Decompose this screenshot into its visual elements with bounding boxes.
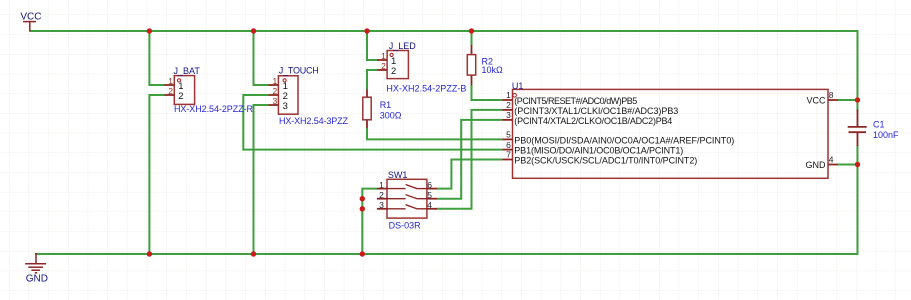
svg-text:8: 8 [829, 90, 834, 100]
switch SW1 body [387, 179, 427, 218]
wire U1 pin2 to SW1 pin4 [437, 110, 503, 209]
svg-text:(PCINT3/XTAL1/CLKI/OC1B#/ADC3): (PCINT3/XTAL1/CLKI/OC1B#/ADC3)PB3 [514, 106, 678, 116]
wire U1 pin3 to SW1 pin5 [437, 120, 503, 199]
wire J_LED pin1 feed from VCC rail [367, 31, 377, 60]
svg-text:HX-XH2.54-3PZZ: HX-XH2.54-3PZZ [279, 116, 349, 126]
connector J_BAT pins [164, 85, 174, 95]
junction dots on GND rail [147, 251, 365, 256]
wire U1 pin7 to SW1 pin6 [437, 160, 503, 189]
svg-text:GND: GND [26, 274, 48, 285]
svg-text:2: 2 [391, 66, 396, 77]
svg-text:1: 1 [381, 51, 386, 61]
wire J_TOUCH pin1 feed from VCC rail [254, 31, 269, 85]
svg-text:3: 3 [272, 96, 277, 106]
svg-text:1: 1 [506, 90, 511, 100]
svg-text:5: 5 [427, 190, 432, 200]
IC U1 pin numbers right [829, 90, 834, 165]
IC U1 body [513, 89, 829, 178]
connector J_LED pin numbers [381, 51, 386, 71]
IC U1 pin1 indicator [513, 94, 517, 98]
svg-text:5: 5 [506, 130, 511, 140]
power flag VCC [23, 22, 36, 32]
switch SW1 right pins [427, 189, 437, 209]
IC U1 pin numbers left [506, 90, 511, 160]
wire GND bottom rail [35, 253, 859, 255]
svg-text:6: 6 [427, 180, 432, 190]
wire right GND riser from C1 to bottom rail [857, 145, 859, 255]
svg-text:3: 3 [379, 200, 384, 210]
svg-text:2: 2 [379, 190, 384, 200]
wire VCC top rail [30, 30, 859, 32]
resistor R1 leads [366, 90, 368, 129]
svg-text:VCC: VCC [806, 95, 826, 105]
svg-text:1: 1 [272, 76, 277, 86]
svg-text:7: 7 [506, 150, 511, 160]
svg-text:1: 1 [379, 180, 384, 190]
wire U1 pin8 VCC to right drop [838, 99, 858, 101]
switch SW1 pin numbers left [379, 180, 384, 210]
wire J_BAT pin1 feed from VCC rail [149, 31, 164, 85]
svg-text:2: 2 [168, 86, 173, 96]
junction dots on VCC rail [147, 28, 475, 33]
svg-text:PB1(MISO/DO/AIN1/OC0B/OC1A/PCI: PB1(MISO/DO/AIN1/OC0B/OC1A/PCINT1) [514, 146, 683, 156]
connector J_TOUCH pins [269, 85, 279, 105]
svg-text:GND: GND [806, 160, 827, 170]
connector J_BAT pin numbers [168, 76, 173, 96]
svg-text:3: 3 [506, 110, 511, 120]
switch SW1 poles row2 [387, 195, 427, 199]
svg-text:(PCINT5/RESET#/ADC0/dW)PB5: (PCINT5/RESET#/ADC0/dW)PB5 [514, 96, 637, 106]
svg-text:(PCINT4/XTAL2/CLKO/OC1B/ADC2)P: (PCINT4/XTAL2/CLKO/OC1B/ADC2)PB4 [514, 116, 672, 126]
svg-text:4: 4 [829, 155, 834, 165]
connector J_LED pin names [391, 56, 396, 77]
connector J_LED body [387, 51, 408, 79]
capacitor C1 plates [848, 127, 867, 132]
ground symbol GND [25, 253, 46, 273]
wire R1 bottom to U1 pin5 PB0 [367, 128, 502, 140]
wire SW1 pin1 to GND rail [362, 189, 377, 254]
svg-text:HX-XH2.54-2PZZ-R: HX-XH2.54-2PZZ-R [174, 104, 254, 114]
svg-text:300Ω: 300Ω [380, 111, 402, 121]
wire right VCC drop to U1 pin8 and C1 [857, 30, 859, 111]
svg-text:U1: U1 [512, 81, 524, 91]
IC U1 left pins [502, 100, 512, 160]
junction dots at C1 net [855, 97, 860, 167]
svg-text:VCC: VCC [20, 11, 41, 22]
wire R2 feed from VCC rail [471, 31, 473, 46]
connector J_LED pins [377, 60, 387, 70]
connector J_BAT pin names [178, 81, 183, 102]
junction dots at SW1 left ladder [360, 196, 365, 212]
switch SW1 poles row3 [387, 205, 427, 209]
svg-text:4: 4 [427, 200, 432, 210]
wire J_TOUCH pin2 to U1 pin6 PB1 [243, 95, 502, 150]
svg-text:J_BAT: J_BAT [174, 66, 201, 76]
connector J_TOUCH body [278, 76, 298, 114]
svg-text:6: 6 [506, 140, 511, 150]
connector J_TOUCH pin names [283, 81, 288, 112]
connector J_BAT pin1 indicator [177, 79, 180, 82]
svg-text:2: 2 [178, 91, 183, 102]
svg-text:PB0(MOSI/DI/SDA/AIN0/OC0A/OC1A: PB0(MOSI/DI/SDA/AIN0/OC0A/OC1A#/AREF/PCI… [514, 135, 734, 145]
wire R2 bottom to U1 pin1 [472, 85, 503, 101]
connector J_BAT body [174, 76, 194, 105]
svg-text:10kΩ: 10kΩ [482, 65, 504, 75]
wire J_TOUCH pin3 to GND rail [254, 105, 269, 254]
capacitor C1 leads [857, 110, 859, 147]
svg-text:SW1: SW1 [388, 170, 408, 180]
svg-text:100nF: 100nF [873, 130, 899, 140]
switch SW1 pin numbers right [427, 180, 432, 210]
svg-text:1: 1 [168, 76, 173, 86]
IC U1 right pins [828, 100, 838, 165]
resistor R1 body [363, 97, 371, 120]
wire J_BAT pin2 to GND rail [149, 95, 164, 254]
svg-text:2: 2 [506, 100, 511, 110]
wire U1 pin4 GND to right riser [838, 164, 858, 166]
svg-text:HX-XH2.54-2PZZ-B: HX-XH2.54-2PZZ-B [386, 84, 466, 94]
wire J_LED pin2 to R1 top [367, 70, 377, 90]
switch SW1 left pins [377, 189, 387, 209]
svg-text:2: 2 [381, 61, 386, 71]
connector J_TOUCH pin numbers [272, 76, 277, 106]
svg-text:2: 2 [272, 86, 277, 96]
svg-text:3: 3 [283, 101, 288, 112]
connector J_TOUCH pin1 indicator [283, 79, 286, 82]
svg-text:J_TOUCH: J_TOUCH [279, 65, 319, 75]
svg-text:DS-03R: DS-03R [389, 220, 422, 230]
svg-text:J_LED: J_LED [389, 41, 417, 51]
resistor R2 leads [471, 45, 473, 85]
switch SW1 poles row1 [387, 185, 427, 189]
svg-text:R1: R1 [380, 100, 392, 110]
svg-text:C1: C1 [873, 119, 885, 129]
svg-text:PB2(SCK/USCK/SCL/ADC1/T0/INT0/: PB2(SCK/USCK/SCL/ADC1/T0/INT0/PCINT2) [514, 156, 697, 166]
connector J_LED pin1 indicator [390, 53, 393, 56]
resistor R2 body [467, 55, 475, 76]
